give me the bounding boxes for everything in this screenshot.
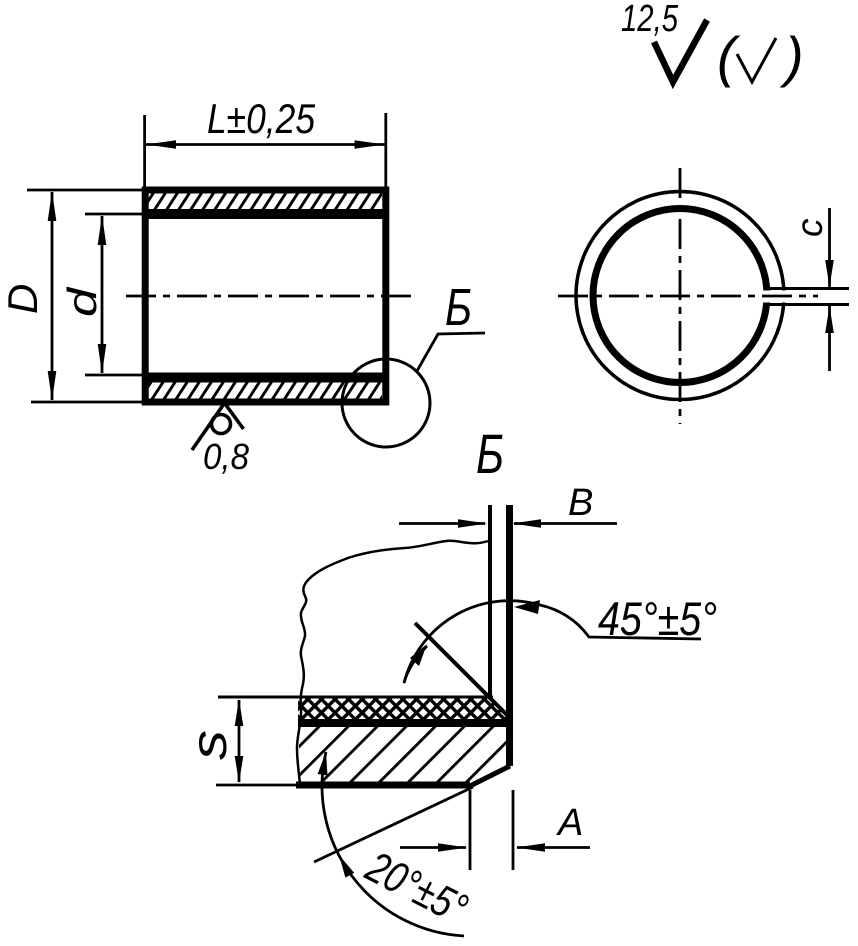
- 45 arrow tail: [404, 646, 427, 683]
- D arrow bottom: [48, 371, 57, 401]
- 20 deg construction line thin: [314, 787, 473, 862]
- dimension A extension line left: [469, 790, 472, 870]
- dimension L extension lines: [143, 115, 146, 188]
- c arrow top: [825, 260, 834, 287]
- svg-text:D: D: [0, 284, 46, 314]
- 45 arc arrowhead at face: [514, 600, 540, 614]
- slit edge top: [766, 287, 849, 290]
- D arrow top: [48, 191, 57, 221]
- B arrow right: [512, 519, 541, 528]
- outer surface bottom thick line: [296, 782, 470, 789]
- dimension A line left: [400, 846, 466, 849]
- centre line horizontal: [558, 295, 818, 298]
- s arrow bottom: [235, 756, 244, 783]
- A arrow right: [516, 843, 545, 852]
- big check mark: [654, 20, 707, 82]
- A arrow left: [438, 843, 467, 852]
- s bottom extension thin: [216, 784, 298, 787]
- dimension D extension lines: [27, 189, 150, 192]
- L arrow right: [355, 140, 385, 149]
- steel hatch band: [299, 727, 506, 786]
- svg-text:45°±5°: 45°±5°: [598, 592, 717, 645]
- svg-text:Б: Б: [445, 279, 472, 337]
- end face thick vertical: [506, 505, 513, 766]
- 20 deg arc: [322, 752, 464, 936]
- bore line bottom (liner): [145, 373, 386, 383]
- inner bore circle thick: [593, 209, 767, 383]
- svg-text:0,8: 0,8: [203, 436, 249, 477]
- centre line vertical: [679, 168, 682, 424]
- dimension A extension line right: [512, 790, 515, 870]
- svg-text:A: A: [556, 802, 583, 844]
- dimension L line: [146, 143, 385, 146]
- liner cross hatch band: [298, 699, 511, 720]
- svg-text:c: c: [789, 218, 830, 237]
- d arrow top: [98, 215, 107, 245]
- dimension A line right: [517, 846, 590, 849]
- 45 arc arrowhead at diagonal: [410, 644, 427, 666]
- B arrow left: [458, 519, 487, 528]
- chamfer inner edge thin vertical: [488, 505, 492, 699]
- svg-text:12,5: 12,5: [621, 0, 679, 40]
- dimension d line: [101, 216, 104, 373]
- dimension B line right: [514, 522, 617, 525]
- bushing outline rectangle: [145, 190, 386, 402]
- dimension B line left: [399, 522, 485, 525]
- dimension D line: [51, 192, 54, 400]
- top wall hatch: [148, 193, 382, 210]
- bottom wall hatch: [148, 383, 382, 400]
- d arrow bottom: [98, 344, 107, 374]
- 45 deg chamfer construction diagonal: [415, 623, 512, 720]
- svg-text:d: d: [59, 286, 105, 317]
- dimension d extension lines: [85, 213, 143, 216]
- small check mark: [737, 38, 776, 82]
- liner/steel boundary thick line: [298, 719, 513, 727]
- svg-text:Б: Б: [476, 422, 504, 485]
- centre line main view: [126, 295, 412, 298]
- svg-text:s: s: [181, 730, 237, 760]
- 20 arc arrowhead at line: [339, 855, 354, 878]
- break wavy line: [297, 541, 488, 785]
- slit edge bottom: [766, 303, 849, 306]
- svg-text:B: B: [568, 482, 593, 524]
- chamfer edge 20 deg thick: [470, 766, 510, 786]
- c arrow bottom: [825, 306, 834, 333]
- bore line top (liner): [145, 209, 386, 219]
- dimension c line: [828, 208, 831, 287]
- callout leader: [417, 333, 485, 371]
- dimension s line: [238, 700, 241, 782]
- s arrow top: [235, 699, 244, 726]
- 20 arc arrowhead top: [318, 752, 328, 776]
- 45 deg arc with leader: [404, 601, 701, 683]
- L arrow left: [146, 140, 176, 149]
- outer circle: [576, 192, 784, 400]
- detail callout circle Б: [342, 359, 430, 447]
- bore surface line / s top extension: [218, 696, 493, 699]
- svg-text:L±0,25: L±0,25: [207, 95, 316, 142]
- slit gap eraser: [763, 291, 853, 303]
- roughness symbol 0,8 under main view: [212, 415, 231, 434]
